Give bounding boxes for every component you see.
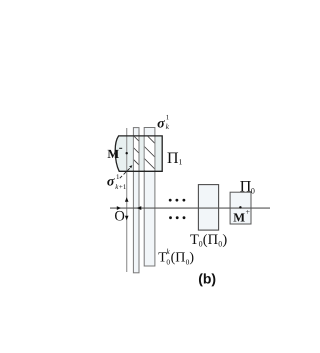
svg-text:σ: σ (157, 116, 165, 131)
svg-text:Π: Π (167, 150, 179, 167)
svg-text:1: 1 (116, 173, 120, 181)
svg-text:Π: Π (240, 179, 252, 196)
svg-text:O: O (114, 209, 124, 225)
svg-text:): ) (222, 232, 227, 248)
svg-text:1: 1 (166, 113, 170, 121)
svg-text:M: M (233, 211, 245, 225)
svg-text:M: M (107, 147, 119, 161)
svg-text:+: + (246, 207, 251, 216)
svg-text:(Π: (Π (203, 232, 219, 248)
svg-text:1: 1 (179, 158, 183, 167)
svg-text:+1: +1 (119, 183, 127, 191)
svg-text:(Π: (Π (171, 251, 186, 266)
svg-text:σ: σ (107, 175, 115, 190)
svg-text:): ) (189, 251, 194, 266)
svg-text:0: 0 (251, 186, 255, 195)
svg-text:(b): (b) (198, 271, 216, 287)
